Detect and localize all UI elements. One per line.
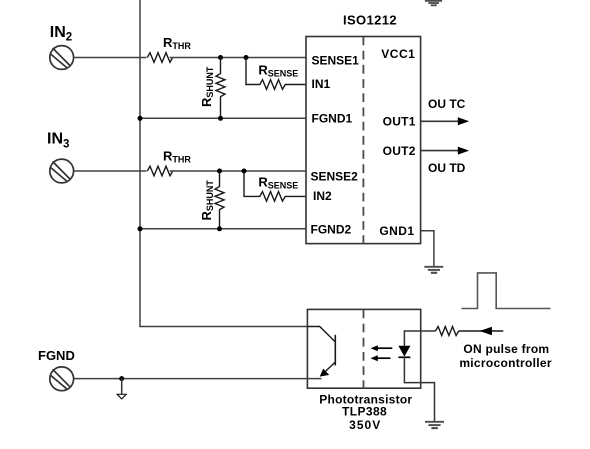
chassis ground arrow (FGND) (121, 379, 123, 394)
svg-text:OUT2: OUT2 (383, 144, 416, 158)
partial ground symbol at top (cut off) (425, 1, 442, 6)
node junction (RSHUNT top, ch2) (217, 169, 222, 174)
svg-text:FGND1: FGND1 (312, 111, 353, 125)
resistor RTHR (channel 2) (147, 166, 172, 176)
phototransistor box U2 TLP388 (307, 309, 420, 388)
node junction (bus to FGND2) (138, 226, 143, 231)
node junction (RSHUNT top, ch1) (218, 55, 223, 60)
node junction (RSENSE tap, ch2) (242, 169, 247, 174)
node junction (RSHUNT bottom, ch2) (217, 226, 222, 231)
svg-text:350V: 350V (349, 418, 381, 432)
IC U1 internal dashed isolation line (362, 37, 364, 244)
svg-text:FGND2: FGND2 (311, 223, 352, 237)
resistor RSHUNT (channel 1, vertical) (199, 58, 225, 119)
pulse waveform (ON pulse) (462, 273, 551, 309)
resistor RSHUNT (channel 2, vertical) (199, 171, 224, 229)
resistor RSENSE (channel 1) (246, 58, 307, 90)
terminal IN2 (50, 46, 74, 70)
svg-text:RTHR: RTHR (163, 35, 191, 51)
phototransistor Q1 (base bar) (334, 335, 336, 366)
svg-text:IN2: IN2 (50, 24, 72, 44)
wire GND1 to ground (421, 231, 434, 266)
wire RTHR to SENSE1 pin (170, 57, 307, 59)
svg-text:IN2: IN2 (313, 189, 332, 203)
node junction (bus to FGND1) (138, 116, 143, 121)
phototransistor Q1 (collector lead) (307, 327, 335, 342)
IC U1 ISO1212 box (306, 37, 421, 244)
svg-text:IN1: IN1 (312, 77, 331, 91)
svg-text:OU TD: OU TD (428, 161, 466, 175)
wire FGND1 rail (140, 117, 307, 119)
svg-text:ON pulse from: ON pulse from (463, 342, 549, 356)
terminal IN3 (50, 159, 74, 183)
svg-text:FGND: FGND (38, 348, 75, 363)
svg-text:RSHUNT: RSHUNT (199, 66, 215, 107)
LED D1 (triangle + cathode bar) (398, 346, 410, 357)
svg-text:RTHR: RTHR (163, 149, 191, 165)
svg-text:VCC1: VCC1 (381, 47, 415, 61)
svg-text:RSENSE: RSENSE (258, 174, 298, 190)
main FGND bus wire (vertical, turns right to phototransistor collector) (140, 0, 307, 327)
wire ON pulse input with arrow (459, 330, 504, 332)
node junction (RSHUNT bottom, ch1) (218, 116, 223, 121)
svg-text:microcontroller: microcontroller (459, 356, 552, 370)
wire IN3 terminal to RTHR (74, 170, 147, 172)
LED D1 (anode wire, top rail to pulse resistor) (404, 331, 435, 346)
resistor R (ON pulse series) (436, 327, 459, 336)
resistor RSENSE (channel 2) (244, 171, 307, 201)
wire OUT1 with arrow (421, 120, 460, 122)
U2 internal dashed isolation line (363, 309, 365, 388)
LED D1 (cathode wire, bottom rail to ground) (404, 357, 434, 421)
svg-text:IN3: IN3 (47, 131, 69, 151)
svg-text:SENSE2: SENSE2 (311, 170, 359, 184)
svg-text:ISO1212: ISO1212 (343, 13, 397, 28)
node junction (FGND chassis tap) (119, 376, 124, 381)
wire FGND2 rail (140, 228, 307, 230)
wire RTHR to SENSE2 pin (170, 170, 307, 172)
svg-text:TLP388: TLP388 (342, 404, 387, 418)
svg-text:GND1: GND1 (379, 224, 414, 238)
svg-text:RSHUNT: RSHUNT (199, 180, 215, 221)
wire IN2 terminal to RTHR (74, 57, 147, 59)
svg-text:OUT1: OUT1 (383, 115, 416, 129)
light arrows from LED to transistor (377, 347, 392, 349)
wire OUT2 with arrow (421, 150, 460, 152)
node junction (RSENSE tap, ch1) (244, 55, 249, 60)
ground (GND1) (424, 267, 443, 273)
wire emitter to FGND line (307, 378, 321, 380)
svg-text:SENSE1: SENSE1 (312, 53, 360, 67)
phototransistor Q1 (emitter lead with arrow) (325, 362, 336, 372)
svg-text:RSENSE: RSENSE (258, 62, 298, 78)
wire FGND terminal to phototransistor emitter (74, 378, 308, 380)
terminal FGND (50, 367, 74, 391)
resistor RTHR (channel 1) (147, 53, 172, 63)
svg-text:OU TC: OU TC (428, 97, 466, 111)
ground (LED cathode) (425, 422, 444, 428)
